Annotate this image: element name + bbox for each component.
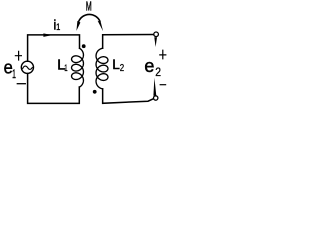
- svg-text:1: 1: [12, 67, 16, 81]
- svg-text:2: 2: [120, 63, 125, 74]
- svg-text:M: M: [86, 0, 92, 13]
- svg-text:1: 1: [64, 63, 67, 73]
- svg-text:e: e: [144, 56, 154, 76]
- svg-text:2: 2: [155, 65, 161, 79]
- svg-text:1: 1: [56, 22, 60, 32]
